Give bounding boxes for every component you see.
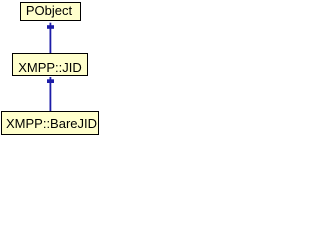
inheritance arrow XMPP::JID -> PObject xyxy=(47,23,54,53)
node PObject (base class box) xyxy=(20,2,81,21)
node XMPP::BareJID (derived class box) xyxy=(1,111,99,135)
node XMPP::JID (middle class box) xyxy=(12,53,88,76)
inheritance arrow XMPP::BareJID -> XMPP::JID xyxy=(47,77,54,111)
